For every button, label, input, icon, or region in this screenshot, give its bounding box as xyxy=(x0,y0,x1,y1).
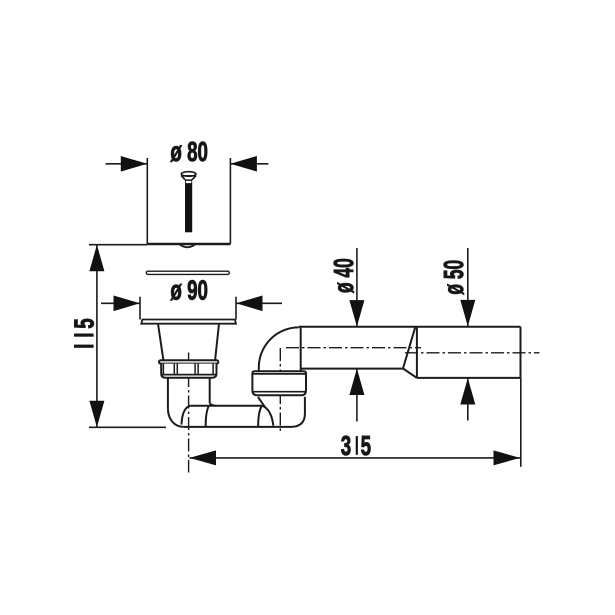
svg-text:ø 80: ø 80 xyxy=(170,136,208,168)
svg-text:5: 5 xyxy=(69,318,101,328)
svg-text:ø 40: ø 40 xyxy=(328,258,359,293)
svg-text:ø 50: ø 50 xyxy=(438,260,469,295)
svg-text:ø 90: ø 90 xyxy=(170,275,208,307)
svg-text:3: 3 xyxy=(341,430,351,462)
svg-text:5: 5 xyxy=(361,430,371,462)
